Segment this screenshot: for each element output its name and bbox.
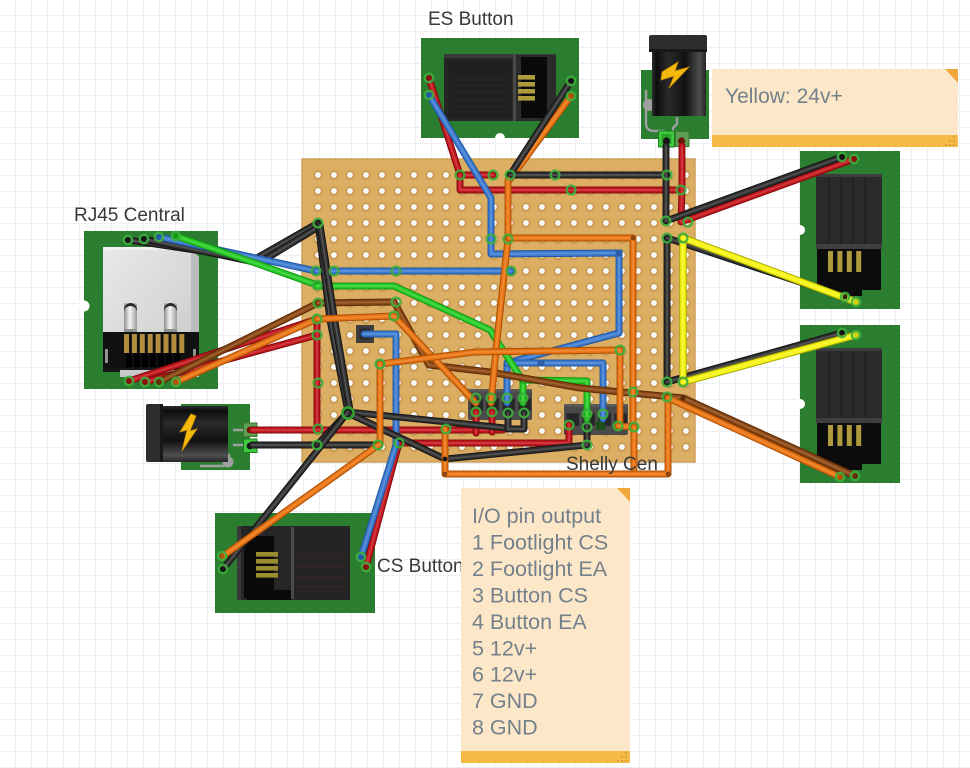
svg-text:RJ45 Central: RJ45 Central [74,205,185,226]
svg-text:Yellow: 24v+: Yellow: 24v+ [725,85,843,108]
svg-text:ES Button: ES Button [428,9,514,30]
svg-text:7 GND: 7 GND [472,689,538,713]
svg-text:4 Button EA: 4 Button EA [472,610,587,634]
svg-text:1 Footlight CS: 1 Footlight CS [472,530,608,554]
svg-text:CS Button: CS Button [377,556,464,577]
svg-text:6 12v+: 6 12v+ [472,663,537,687]
svg-text:I/O pin output: I/O pin output [472,504,601,528]
svg-text:Shelly Cen: Shelly Cen [566,454,658,475]
svg-text:3 Button CS: 3 Button CS [472,583,588,607]
svg-text:2 Footlight EA: 2 Footlight EA [472,557,608,581]
svg-text:8 GND: 8 GND [472,716,538,740]
svg-text:5 12v+: 5 12v+ [472,636,537,660]
